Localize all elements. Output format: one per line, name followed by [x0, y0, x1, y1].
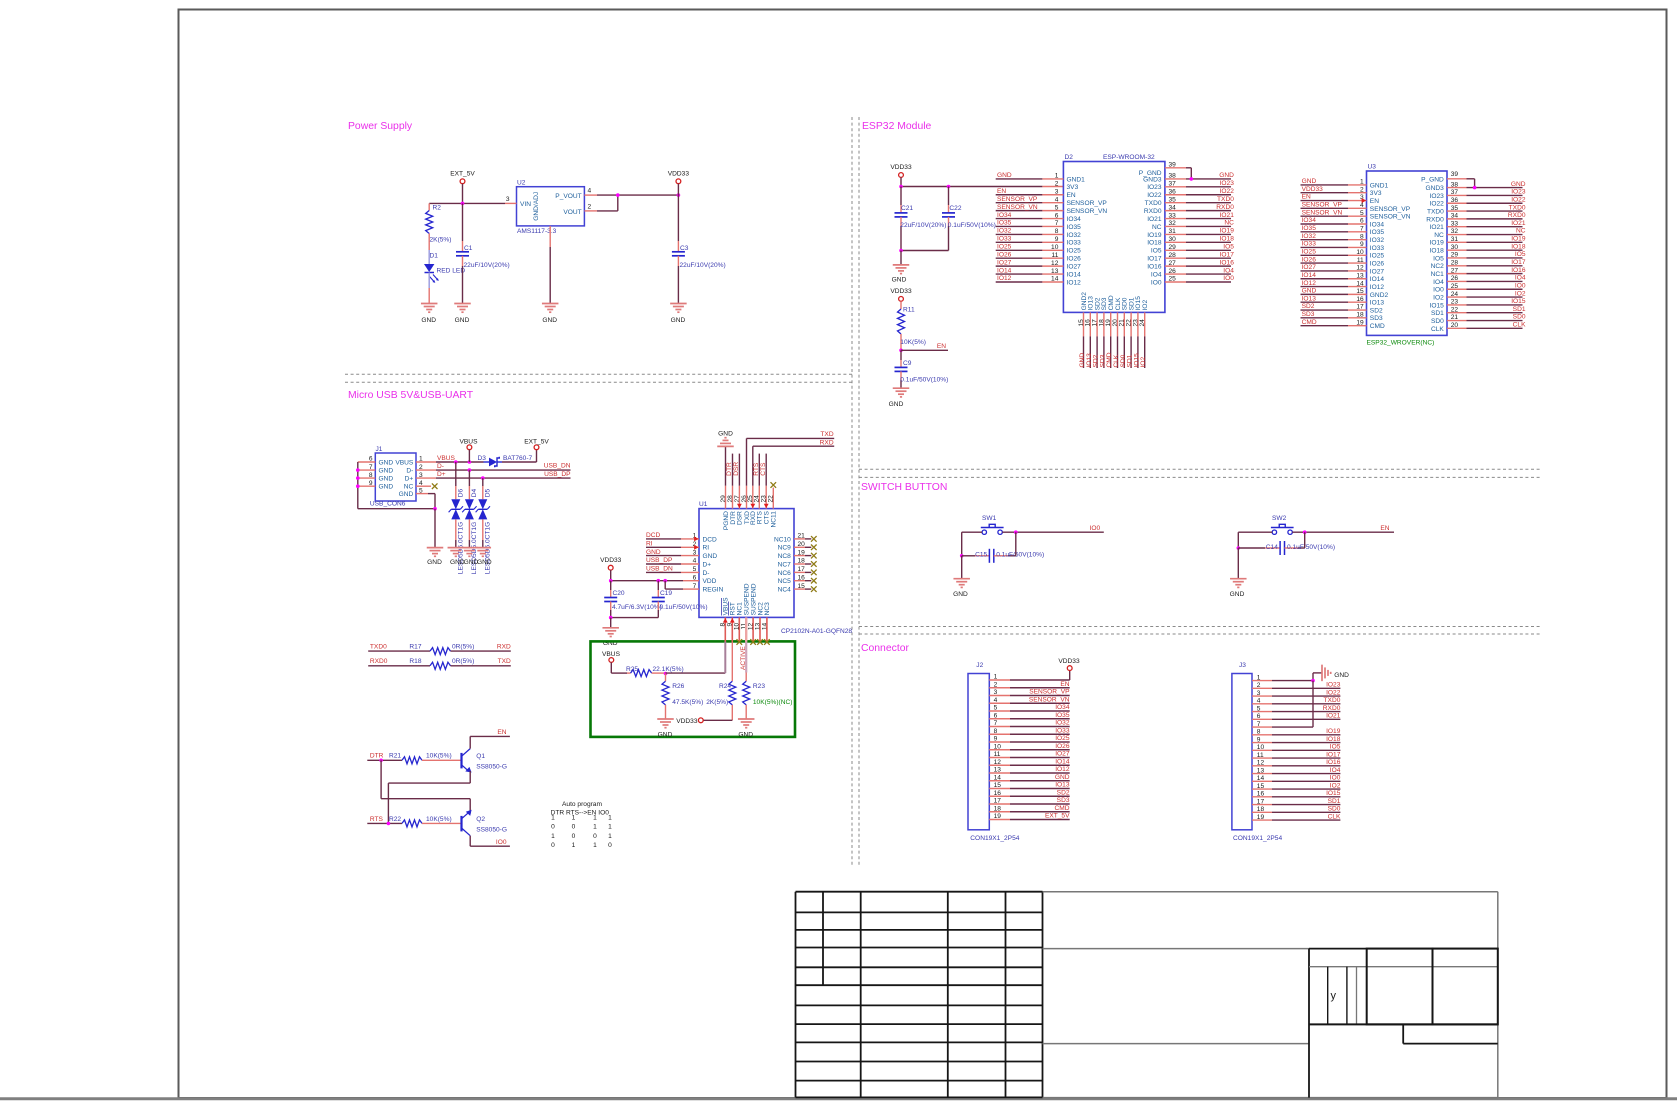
svg-text:1: 1	[572, 815, 576, 822]
svg-text:C15: C15	[975, 552, 987, 559]
wire U1 NC10 no-connect	[794, 538, 805, 540]
svg-text:IO27: IO27	[1302, 264, 1317, 271]
svg-text:GND: GND	[703, 553, 718, 560]
wire J2 pin16	[989, 795, 1010, 797]
no-connect X U1 pin 19	[811, 553, 817, 559]
ground under C20	[602, 627, 619, 629]
svg-text:VDD33: VDD33	[1302, 186, 1324, 193]
svg-text:SD0: SD0	[1513, 314, 1526, 321]
wire VOUT net P_VOUT to VDD33	[597, 194, 678, 196]
svg-text:U2: U2	[517, 180, 526, 187]
svg-text:IO12: IO12	[1055, 766, 1070, 773]
wire U3 pin6 IO34	[1301, 223, 1349, 225]
arrow into U1 pin23	[764, 504, 769, 509]
regulator U2 AMS1117-3.3	[517, 187, 585, 226]
svg-text:GND: GND	[421, 317, 436, 324]
wire U1 NC9 no-connect	[794, 546, 805, 548]
no-connect X U1 pin14	[764, 639, 770, 645]
wire R25 to junction	[652, 672, 666, 674]
J1 left pin 7 stub	[358, 469, 376, 471]
svg-text:0: 0	[551, 842, 555, 849]
svg-text:47.5K(5%): 47.5K(5%)	[672, 699, 703, 706]
wire U3 pin13 IO14	[1301, 278, 1349, 280]
wire D2 pin9 IO33	[996, 241, 1043, 243]
svg-text:VDD33: VDD33	[1058, 658, 1080, 665]
svg-text:RTS: RTS	[370, 816, 384, 823]
wire SW2 left elbow down	[1237, 532, 1239, 548]
junction C15 left	[960, 554, 964, 558]
wire U1 USB_DN pin	[646, 571, 681, 573]
wire U3 pin25 IO0	[1447, 288, 1467, 290]
svg-text:10K(5%): 10K(5%)	[426, 753, 452, 760]
svg-text:P_GND: P_GND	[1421, 177, 1444, 184]
svg-text:IO19: IO19	[1326, 728, 1341, 735]
svg-text:DCD: DCD	[646, 532, 661, 539]
svg-text:BAT760-7: BAT760-7	[503, 455, 533, 462]
svg-text:IO35: IO35	[1302, 225, 1317, 232]
wire J3 pin2	[1252, 687, 1272, 689]
wire DTR to R21	[367, 759, 402, 761]
svg-text:IO14: IO14	[997, 267, 1012, 274]
ground under C9	[893, 387, 910, 389]
svg-text:RXD0: RXD0	[1508, 212, 1526, 219]
wire U1 pin8 stub	[724, 617, 726, 641]
svg-text:IO34: IO34	[1067, 216, 1082, 223]
ground under J1	[427, 547, 444, 549]
svg-text:IO17: IO17	[1147, 256, 1162, 263]
svg-text:SENSOR_VP: SENSOR_VP	[1302, 202, 1343, 209]
svg-text:GND: GND	[379, 468, 394, 475]
svg-text:R23: R23	[753, 683, 765, 690]
divider Power Supply / Micro USB	[345, 373, 852, 375]
svg-text:GND: GND	[379, 484, 394, 491]
svg-text:SD0: SD0	[1328, 806, 1341, 813]
wire D2 pin14 IO12	[996, 281, 1043, 283]
svg-text:SENSOR_VP: SENSOR_VP	[1029, 689, 1070, 696]
svg-text:39: 39	[1451, 171, 1459, 178]
wire C19 bottom to C20 bottom	[611, 617, 659, 619]
svg-text:0: 0	[572, 824, 576, 831]
wire D2 pin24 down	[1144, 312, 1146, 336]
svg-text:SENSOR_VN: SENSOR_VN	[1370, 214, 1411, 221]
svg-text:USB_DP: USB_DP	[646, 557, 673, 564]
svg-text:GND: GND	[1334, 672, 1349, 679]
wire J2 pin18	[989, 811, 1010, 813]
svg-text:SENSOR_VN: SENSOR_VN	[1302, 209, 1343, 216]
wire C14 right elbow up	[1304, 532, 1306, 548]
svg-text:GND: GND	[671, 317, 686, 324]
wire J2 pin2	[989, 687, 1010, 689]
svg-text:1: 1	[608, 833, 612, 840]
svg-text:1: 1	[572, 842, 576, 849]
wire J2 pin12	[989, 764, 1010, 766]
svg-text:NC8: NC8	[778, 553, 792, 560]
wire USB_DN row	[436, 469, 571, 471]
wire U1 DCD pin	[646, 538, 681, 540]
svg-text:IO25: IO25	[1067, 248, 1082, 255]
svg-text:Power Supply: Power Supply	[348, 121, 413, 132]
svg-text:USB_DN: USB_DN	[646, 566, 673, 573]
svg-text:TXD0: TXD0	[1427, 208, 1444, 215]
svg-text:SENSOR_VN: SENSOR_VN	[1067, 208, 1108, 215]
svg-text:2: 2	[1055, 181, 1059, 188]
svg-text:0R(5%): 0R(5%)	[452, 644, 474, 651]
svg-text:IO33: IO33	[1055, 727, 1070, 734]
wire U3 pin8 IO32	[1301, 239, 1349, 241]
wire U3 pin23 IO15	[1447, 304, 1467, 306]
svg-text:IO2: IO2	[1140, 357, 1147, 368]
wire U3 pin14 IO12	[1301, 286, 1349, 288]
svg-text:TXD0: TXD0	[370, 644, 387, 651]
svg-text:D-: D-	[437, 463, 444, 470]
svg-text:IO4: IO4	[1515, 275, 1526, 282]
wire U3 pin27 IO16	[1447, 273, 1467, 275]
svg-text:VBUS: VBUS	[460, 439, 479, 446]
J1 pin1 stub	[416, 461, 436, 463]
junction VBUS-D6	[454, 460, 458, 464]
resistor R11 10K pullup	[900, 301, 902, 309]
no-connect X U1 pin 20	[811, 545, 817, 551]
svg-text:J2: J2	[976, 662, 983, 669]
svg-text:GND: GND	[542, 317, 557, 324]
wire J1 ground bus vertical	[357, 462, 359, 509]
svg-text:IO4: IO4	[1433, 279, 1444, 286]
svg-text:IO21: IO21	[1430, 224, 1445, 231]
svg-text:GND3: GND3	[1143, 176, 1162, 183]
wire VDD33 to D2 3V3 pin	[901, 186, 1042, 188]
junction D+ / D5	[481, 476, 485, 480]
title block left table	[796, 891, 1043, 893]
arrow into U1 pin1	[694, 537, 699, 542]
svg-text:USB_DP: USB_DP	[544, 471, 571, 478]
svg-text:R26: R26	[672, 683, 684, 690]
svg-text:22uF/10V(20%): 22uF/10V(20%)	[464, 262, 510, 269]
wire U3 pin11 IO26	[1301, 262, 1349, 264]
wire RXD0 to R18	[368, 665, 430, 667]
svg-text:EXT_5V: EXT_5V	[524, 439, 549, 446]
svg-text:GND: GND	[658, 731, 673, 738]
svg-text:IO32: IO32	[1302, 233, 1317, 240]
wire U3 pin21 SD0	[1447, 320, 1467, 322]
svg-text:TXD: TXD	[820, 431, 833, 438]
resistor R21 10K	[402, 757, 422, 764]
svg-text:GND3: GND3	[1425, 185, 1444, 192]
wire SW1 left	[962, 531, 982, 533]
svg-text:D+: D+	[405, 476, 414, 483]
wire TXD from U1 pin26	[746, 438, 748, 485]
capacitor C3	[677, 195, 679, 241]
junction C21 bottom	[899, 249, 903, 253]
wire D2 pin5 SENSOR_VN	[996, 210, 1043, 212]
svg-text:IO22: IO22	[1511, 196, 1526, 203]
no-connect X U1 pin 21	[811, 536, 817, 542]
svg-text:IO17: IO17	[1511, 259, 1526, 266]
capacitor C19	[657, 581, 659, 590]
wire U3 pin37 IO23	[1447, 194, 1467, 196]
junction D2 pin38/39	[1190, 177, 1194, 181]
wire D6 top lead	[455, 462, 457, 486]
svg-text:GND: GND	[889, 401, 904, 408]
wire Q1 emitter cross-couple to RTS	[469, 771, 471, 783]
ground right of J3	[1321, 665, 1323, 682]
ground under SW2	[1230, 578, 1247, 580]
svg-text:VDD33: VDD33	[668, 171, 690, 178]
junction REGIN elbow	[663, 579, 667, 583]
svg-text:ESP32_WROVER(NC): ESP32_WROVER(NC)	[1367, 340, 1435, 347]
svg-text:1: 1	[551, 833, 555, 840]
svg-text:RED LED: RED LED	[437, 268, 466, 275]
wire J3 pin19	[1252, 819, 1272, 821]
wire U3 pin10 IO25	[1301, 254, 1349, 256]
wire SW2 right to EN	[1292, 531, 1394, 533]
svg-text:NC: NC	[1224, 220, 1234, 227]
svg-text:0.1uF/50V(10%): 0.1uF/50V(10%)	[996, 552, 1044, 559]
svg-text:IO18: IO18	[1220, 236, 1235, 243]
ground under D5	[475, 547, 492, 549]
wire Q2 collector to IO0	[469, 836, 471, 847]
wire EN stub	[901, 349, 948, 351]
wire J2 pin19	[989, 819, 1010, 821]
svg-text:SENSOR_VP: SENSOR_VP	[1370, 206, 1411, 213]
svg-text:EN: EN	[1370, 198, 1379, 205]
junction DTR node	[379, 759, 383, 763]
wire U3 pin28 IO17	[1447, 265, 1467, 267]
wire D2 pin19 down	[1110, 312, 1112, 336]
svg-text:IO27: IO27	[1055, 751, 1070, 758]
capacitor C14	[1238, 547, 1265, 549]
wire DTR cross-couple to Q2 emitter	[380, 760, 382, 798]
wire J3 pin9	[1252, 742, 1272, 744]
svg-text:NC2: NC2	[1431, 263, 1445, 270]
svg-text:GND: GND	[379, 476, 394, 483]
svg-text:IO5: IO5	[1223, 243, 1234, 250]
svg-text:IO4: IO4	[1151, 271, 1162, 278]
svg-text:RI: RI	[646, 541, 653, 548]
svg-text:0.1uF/50V(10%): 0.1uF/50V(10%)	[660, 604, 708, 611]
transistor Q1 SS8050-G	[460, 753, 462, 769]
svg-text:IO23: IO23	[1511, 189, 1526, 196]
svg-text:NC4: NC4	[778, 587, 792, 594]
port VDD33 (power supply)	[676, 179, 681, 184]
ground under R26	[657, 718, 674, 720]
svg-text:ESP-WROOM-32: ESP-WROOM-32	[1103, 154, 1155, 161]
svg-text:D-: D-	[406, 468, 413, 475]
svg-text:USB_DN: USB_DN	[544, 463, 571, 470]
svg-text:RXD: RXD	[820, 439, 834, 446]
arrow into U1 pin8	[723, 618, 728, 623]
wire VBUS to R25	[610, 662, 612, 673]
ESD diode D5 LESD5D5.0CT1G	[478, 499, 487, 509]
svg-text:GND: GND	[646, 549, 661, 556]
svg-text:SD3: SD3	[1302, 311, 1315, 318]
svg-text:CLK: CLK	[1328, 813, 1341, 820]
svg-text:GND: GND	[427, 559, 442, 566]
wire U1 NC7 no-connect	[794, 563, 805, 565]
svg-text:IO25: IO25	[1370, 253, 1385, 260]
svg-text:VDD: VDD	[703, 578, 717, 585]
wire D2 pin32 NC	[1165, 225, 1186, 227]
svg-text:IO22: IO22	[1326, 689, 1341, 696]
junction J1 pin8	[356, 476, 360, 480]
overline RST pin9	[727, 602, 729, 616]
svg-text:J3: J3	[1239, 662, 1246, 669]
wire U3 pin33 IO21	[1447, 226, 1467, 228]
svg-text:D3: D3	[478, 455, 487, 462]
no-connect X U1 pin10	[737, 639, 743, 645]
port VDD33 (J2)	[1067, 666, 1072, 671]
svg-text:IO12: IO12	[1302, 280, 1317, 287]
wire U1 RTS stub up	[758, 454, 760, 486]
svg-text:TXD: TXD	[498, 658, 511, 665]
svg-text:DSR: DSR	[737, 511, 744, 525]
wire D2 pin37 IO23	[1165, 186, 1186, 188]
ground under R23	[738, 718, 755, 720]
svg-text:IO27: IO27	[1370, 268, 1385, 275]
wire J3 pin3	[1252, 695, 1272, 697]
wire U1 DTR stub up	[732, 454, 734, 486]
svg-text:4: 4	[588, 188, 592, 195]
svg-text:GND: GND	[1302, 288, 1317, 295]
svg-text:C3: C3	[680, 245, 689, 252]
svg-text:Connector: Connector	[861, 643, 909, 654]
wire D2 pin26 IO4	[1165, 273, 1186, 275]
svg-text:SD2: SD2	[1302, 303, 1315, 310]
port VBUS (usb)	[467, 445, 472, 450]
wire J2 pin15	[989, 788, 1010, 790]
svg-text:IO18: IO18	[1147, 240, 1162, 247]
wire J1 pin5 elbow	[428, 493, 435, 495]
svg-text:1: 1	[551, 815, 555, 822]
svg-text:D-: D-	[703, 570, 710, 577]
wire U1 pin11 to R23	[745, 617, 747, 641]
svg-text:D4: D4	[471, 488, 478, 497]
svg-text:RST: RST	[730, 602, 737, 615]
svg-text:IO14: IO14	[1370, 276, 1385, 283]
wire D5 bottom lead	[482, 519, 484, 540]
junction RTS node	[387, 822, 391, 826]
svg-text:10K(5%): 10K(5%)	[900, 339, 926, 346]
svg-text:Micro USB 5V&USB-UART: Micro USB 5V&USB-UART	[348, 390, 474, 401]
svg-text:IO4: IO4	[1223, 267, 1234, 274]
svg-text:VIN: VIN	[520, 201, 531, 208]
arrow into U1 pin25	[750, 504, 755, 509]
svg-text:CON19X1_2P54: CON19X1_2P54	[970, 835, 1019, 842]
wire R21 to Q1 base	[422, 759, 461, 761]
wire J2 pin1	[989, 679, 1010, 681]
svg-text:IO5: IO5	[1433, 255, 1444, 262]
wire J2 pin10	[989, 749, 1010, 751]
svg-text:CMD: CMD	[1054, 805, 1069, 812]
pin 4 P_VOUT stub	[584, 194, 597, 196]
junction R25/R26	[664, 672, 668, 676]
port VBUS (divider)	[609, 658, 614, 663]
wire U3 pin32 NC	[1447, 234, 1467, 236]
svg-text:IO19: IO19	[1147, 232, 1162, 239]
svg-text:IO32: IO32	[1055, 720, 1070, 727]
svg-text:EN: EN	[1060, 681, 1069, 688]
svg-text:SENSOR_VN: SENSOR_VN	[1029, 696, 1070, 703]
svg-text:IO21: IO21	[1511, 220, 1526, 227]
svg-text:IO23: IO23	[1147, 184, 1162, 191]
svg-text:IO32: IO32	[1370, 237, 1385, 244]
svg-text:IO34: IO34	[1370, 221, 1385, 228]
wire D2 pin27 IO16	[1165, 265, 1186, 267]
svg-text:SWITCH BUTTON: SWITCH BUTTON	[861, 482, 947, 493]
svg-text:IO26: IO26	[1370, 261, 1385, 268]
svg-text:0.1uF/50V(10%): 0.1uF/50V(10%)	[948, 222, 996, 229]
wire SW2 to ground	[1237, 548, 1239, 579]
ESD diode D4 LESD5D5.0CT1G	[465, 499, 474, 509]
svg-text:D+: D+	[703, 561, 712, 568]
svg-text:10K(5%): 10K(5%)	[426, 816, 452, 823]
J1 left pin 6 stub	[358, 461, 376, 463]
wire D3 cathode to EXT_5V	[502, 461, 537, 463]
svg-text:y: y	[1331, 990, 1337, 1002]
svg-text:SD3: SD3	[1370, 315, 1383, 322]
wire U3 pin7 IO35	[1301, 231, 1349, 233]
wire U1 NC5 no-connect	[794, 580, 805, 582]
svg-text:GND: GND	[1511, 181, 1526, 188]
title block right area	[1043, 891, 1498, 893]
svg-text:ACTIVE: ACTIVE	[740, 646, 747, 670]
svg-text:SD2: SD2	[1057, 789, 1070, 796]
wire C15 right elbow up	[1015, 532, 1017, 556]
svg-text:2: 2	[588, 203, 592, 210]
wire U3 pin34 RXD0	[1447, 218, 1467, 220]
wire U3 pin2 VDD33	[1301, 192, 1349, 194]
svg-text:EN: EN	[1067, 192, 1076, 199]
wire J3 pin8	[1252, 734, 1272, 736]
svg-text:IO32: IO32	[1067, 232, 1082, 239]
svg-text:IO13: IO13	[1370, 300, 1385, 307]
junction VDD33 node	[677, 193, 681, 197]
wire J2 pin4	[989, 702, 1010, 704]
svg-text:GND: GND	[455, 317, 470, 324]
svg-text:VDD33: VDD33	[890, 164, 912, 171]
svg-text:GND1: GND1	[1370, 182, 1389, 189]
svg-text:IO26: IO26	[997, 251, 1012, 258]
svg-text:CP2102N-A01-GQFN28: CP2102N-A01-GQFN28	[781, 628, 852, 635]
green highlight box	[591, 641, 796, 737]
svg-text:3V3: 3V3	[1067, 184, 1079, 191]
svg-text:0: 0	[572, 833, 576, 840]
wire TXD0 to R17	[368, 650, 430, 652]
svg-text:DSR: DSR	[733, 462, 740, 476]
wire D2 pin22 down	[1130, 312, 1132, 336]
svg-text:1: 1	[593, 824, 597, 831]
junction J1 pin7	[356, 468, 360, 472]
connector J2 CON19X1_2P54	[968, 674, 989, 830]
wire J2 pin11	[989, 757, 1010, 759]
svg-text:CTS: CTS	[760, 462, 767, 476]
no-connect X U1 pin 15	[811, 586, 817, 592]
svg-text:VBUS: VBUS	[602, 651, 621, 658]
svg-text:IO26: IO26	[1055, 743, 1070, 750]
svg-text:GND: GND	[997, 172, 1012, 179]
title block inner box	[1308, 949, 1310, 1098]
svg-text:0: 0	[608, 842, 612, 849]
wire U1 USB_DP pin	[646, 563, 681, 565]
svg-text:IO2: IO2	[1330, 782, 1341, 789]
wire U1 NC11 stub up	[772, 488, 774, 509]
svg-text:GND: GND	[738, 731, 753, 738]
svg-text:IO25: IO25	[1302, 248, 1317, 255]
svg-text:NC5: NC5	[778, 578, 792, 585]
svg-text:C14: C14	[1266, 544, 1278, 551]
wire D2 pin35 TXD0	[1165, 202, 1186, 204]
no-connect X U1 pin12	[750, 639, 756, 645]
svg-text:SW2: SW2	[1272, 515, 1287, 522]
